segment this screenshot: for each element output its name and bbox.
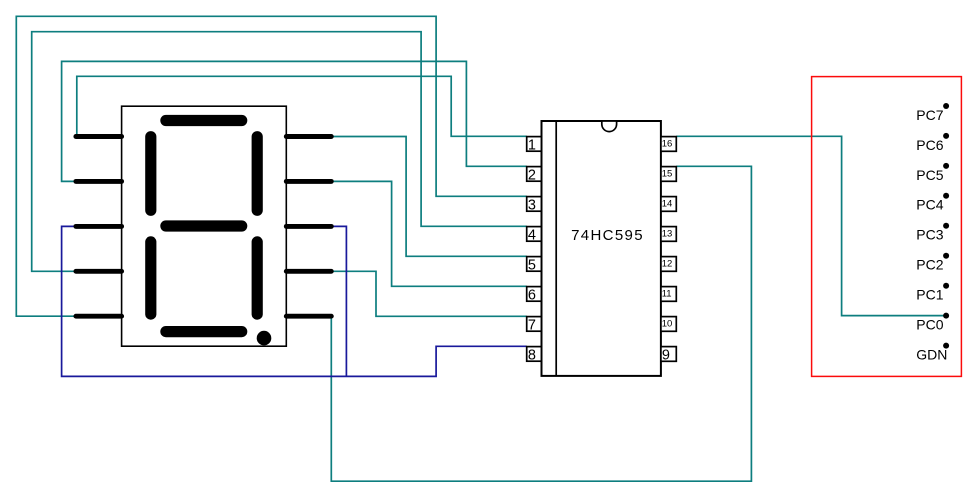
- wire net6: display right pin2 to IC pin6: [331, 181, 526, 286]
- header pin dot PC0: [943, 313, 949, 319]
- svg-text:9: 9: [662, 348, 670, 364]
- display right pin 4: [286, 269, 331, 274]
- IC pin 5 box: [527, 257, 542, 274]
- wire net1: display left pin1 to IC pin1: [76, 76, 527, 136]
- IC pin 15 box: [661, 167, 676, 182]
- display right pin 2: [286, 179, 331, 184]
- svg-text:7: 7: [528, 318, 536, 334]
- wire net4: display left pin4 to IC pin4: [32, 32, 527, 272]
- svg-text:5: 5: [528, 258, 536, 274]
- wire net2: display left pin2 to IC pin2: [62, 61, 527, 181]
- IC pin 13 box: [661, 227, 676, 242]
- IC pin 1 box: [527, 137, 542, 154]
- IC U1 74HC595 body: [542, 121, 661, 376]
- wire net9: IC pin16 to header PC0: [676, 136, 946, 315]
- svg-text:PC4: PC4: [916, 197, 943, 213]
- header pin dot PC2: [943, 253, 949, 259]
- svg-text:PC0: PC0: [916, 317, 943, 333]
- display right pin 3: [286, 224, 331, 229]
- svg-text:1: 1: [528, 138, 536, 154]
- svg-text:GDN: GDN: [916, 347, 947, 363]
- wire net7: display right pin4 to IC pin7: [331, 271, 526, 316]
- IC pin 16 box: [661, 137, 676, 152]
- svg-text:3: 3: [528, 198, 536, 214]
- header pin dot PC1: [943, 283, 949, 289]
- display left pin 2: [76, 179, 122, 184]
- IC pin 7 box: [527, 317, 542, 334]
- segment a: [166, 115, 242, 126]
- svg-text:10: 10: [662, 318, 673, 329]
- segment d: [166, 326, 242, 337]
- wire net5: display right pin1 to IC pin5: [331, 137, 526, 257]
- IC inner line: [555, 121, 557, 376]
- display left pin 5: [76, 314, 122, 319]
- svg-text:PC7: PC7: [916, 107, 943, 123]
- header pin dot PC4: [943, 193, 949, 199]
- IC notch: [602, 121, 617, 132]
- svg-text:15: 15: [662, 168, 673, 179]
- svg-text:PC5: PC5: [916, 167, 943, 183]
- header pin dot PC5: [943, 163, 949, 169]
- display left pin 1: [76, 134, 122, 139]
- svg-text:74HC595: 74HC595: [571, 227, 644, 244]
- IC pin 3 box: [527, 197, 542, 214]
- wire net10 blue branch: display right pin3 to bottom rail: [331, 226, 346, 376]
- IC pin 2 box: [527, 167, 542, 184]
- segment b: [252, 137, 263, 211]
- header pin dot GDN: [943, 343, 949, 349]
- IC pin 6 box: [527, 287, 542, 304]
- IC pin 14 box: [661, 197, 676, 212]
- svg-text:PC3: PC3: [916, 227, 943, 243]
- svg-text:14: 14: [662, 198, 673, 209]
- IC pin 12 box: [661, 257, 676, 272]
- segment e: [145, 242, 156, 314]
- segment g: [166, 220, 242, 231]
- svg-text:PC2: PC2: [916, 257, 943, 273]
- svg-text:2: 2: [528, 168, 536, 184]
- decimal point: [257, 331, 272, 346]
- wire net10 blue: display left pin3 to IC pin8: [62, 226, 527, 376]
- svg-text:11: 11: [662, 288, 672, 299]
- svg-text:PC6: PC6: [916, 137, 943, 153]
- IC pin 4 box: [527, 227, 542, 244]
- header pin dot PC6: [943, 133, 949, 139]
- svg-text:8: 8: [528, 348, 536, 364]
- 7-segment display body: [122, 106, 287, 346]
- display right pin 5: [286, 314, 331, 319]
- svg-text:13: 13: [662, 228, 673, 239]
- svg-text:12: 12: [662, 258, 673, 269]
- IC pin 8 box: [527, 347, 542, 364]
- segment f: [145, 137, 156, 211]
- svg-text:6: 6: [528, 288, 536, 304]
- IC pin 9 box: [661, 347, 676, 364]
- wire net8: display right pin5 to IC pin15: [331, 166, 751, 481]
- svg-text:4: 4: [528, 228, 536, 244]
- svg-text:16: 16: [662, 138, 673, 149]
- header connector J1 red box: [812, 77, 962, 377]
- segment c: [252, 242, 263, 314]
- header pin dot PC3: [943, 223, 949, 229]
- IC pin 11 box: [661, 287, 676, 302]
- display left pin 3: [76, 224, 122, 229]
- svg-text:PC1: PC1: [916, 287, 943, 303]
- wire net3: display left pin5 to IC pin3: [16, 16, 526, 316]
- display left pin 4: [76, 269, 122, 274]
- display right pin 1: [286, 134, 331, 139]
- header pin dot PC7: [943, 103, 949, 109]
- IC pin 10 box: [661, 317, 676, 332]
